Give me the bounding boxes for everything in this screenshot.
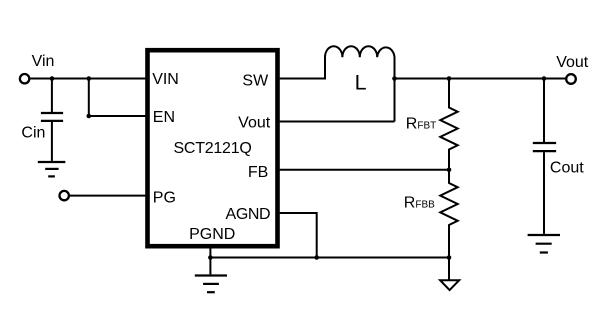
svg-text:SCT2121Q: SCT2121Q — [174, 140, 252, 157]
svg-text:Vout: Vout — [556, 54, 589, 71]
svg-text:VIN: VIN — [152, 71, 179, 88]
svg-text:PG: PG — [153, 189, 176, 206]
svg-text:Vin: Vin — [32, 53, 55, 70]
svg-text:EN: EN — [153, 109, 175, 126]
svg-text:L: L — [355, 70, 367, 94]
svg-text:Vout: Vout — [238, 115, 271, 132]
svg-text:AGND: AGND — [226, 206, 271, 223]
svg-text:FB: FB — [248, 164, 268, 181]
svg-text:PGND: PGND — [189, 226, 235, 243]
svg-text:Cin: Cin — [21, 125, 45, 142]
svg-text:Cout: Cout — [550, 160, 584, 177]
svg-text:SW: SW — [242, 72, 269, 89]
